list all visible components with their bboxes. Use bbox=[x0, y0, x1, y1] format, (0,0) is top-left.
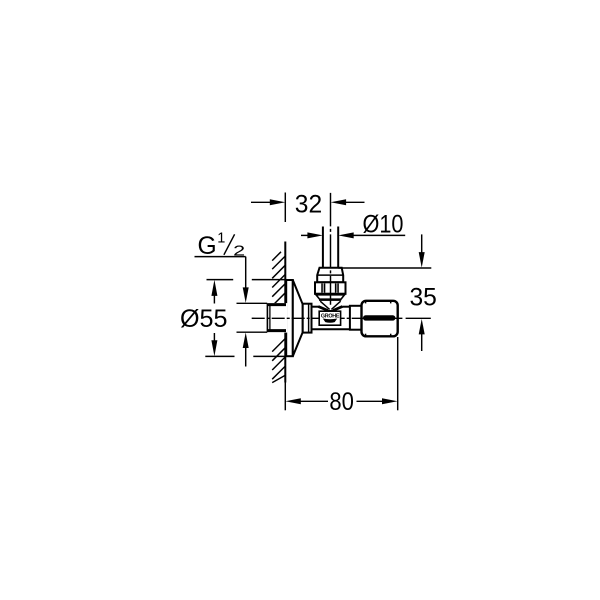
dim 35 top extension line bbox=[338, 267, 431, 269]
dim O55 lower arrow bbox=[211, 333, 217, 356]
wall extension line (32 dim, upper) bbox=[284, 193, 286, 223]
outlet neck bbox=[350, 306, 362, 330]
handle cap ticks bbox=[366, 301, 391, 336]
G1/2 leader vertical w/ down arrow bbox=[243, 257, 249, 303]
dim 35 bottom extension line bbox=[406, 317, 431, 319]
vertical centerline bbox=[330, 193, 332, 305]
svg-text:1: 1 bbox=[217, 230, 225, 246]
svg-text:32: 32 bbox=[295, 192, 322, 219]
fitting base thick bar bbox=[319, 299, 341, 301]
svg-text:Ø10: Ø10 bbox=[363, 212, 404, 239]
handle bbox=[362, 301, 398, 337]
compression nut bbox=[315, 282, 346, 294]
escutcheon base disc bbox=[286, 280, 293, 356]
dim O55 top extension line bbox=[207, 279, 287, 281]
G1/2 lower arrow bbox=[243, 333, 249, 367]
dim 80 line left w/ arrow bbox=[285, 398, 328, 404]
wall hatching top band bbox=[272, 252, 285, 306]
thread G1/2 male end bbox=[267, 303, 287, 333]
svg-text:35: 35 bbox=[410, 284, 437, 311]
dim O10 right arrow bbox=[338, 232, 405, 238]
svg-text:Ø55: Ø55 bbox=[180, 306, 228, 333]
dim O55 bottom extension line bbox=[205, 355, 285, 357]
G1/2 leader underline bbox=[195, 256, 246, 258]
handle groove bar bbox=[363, 315, 395, 320]
dim 32 line right w/ arrow bbox=[331, 199, 365, 205]
wall hatching bottom band bbox=[272, 339, 285, 383]
svg-text:G: G bbox=[198, 233, 217, 260]
wall extension line (80 dim, lower) bbox=[284, 383, 286, 411]
GROHE fan emblem bbox=[323, 319, 337, 323]
dim 80 right extension line bbox=[397, 337, 399, 410]
G1/2 top extension line bbox=[237, 302, 268, 304]
dim 80 line right w/ arrow bbox=[357, 398, 398, 404]
escutcheon cone bbox=[293, 280, 303, 356]
wall line bbox=[284, 242, 286, 383]
horizontal centerline bbox=[252, 317, 403, 319]
escutcheon neck ring bbox=[303, 304, 312, 333]
G1/2 bottom extension line bbox=[237, 331, 268, 333]
G 1/2 label bbox=[198, 230, 246, 260]
dim 32 line left w/ arrow bbox=[251, 199, 285, 205]
inlet V chamfer funnel bbox=[318, 301, 342, 311]
supply pipe bbox=[323, 227, 338, 268]
dim O55 upper arrow bbox=[211, 280, 217, 304]
compression fitting olive section bbox=[317, 268, 343, 283]
dim 35 lower arrow bbox=[419, 319, 425, 351]
fitting lower cone bbox=[316, 295, 345, 299]
dim 35 upper arrow bbox=[419, 234, 425, 267]
valve body bbox=[312, 307, 351, 330]
svg-text:80: 80 bbox=[329, 389, 354, 416]
GROHE logo plate bbox=[319, 311, 340, 325]
dim O10 left arrow bbox=[301, 232, 323, 238]
